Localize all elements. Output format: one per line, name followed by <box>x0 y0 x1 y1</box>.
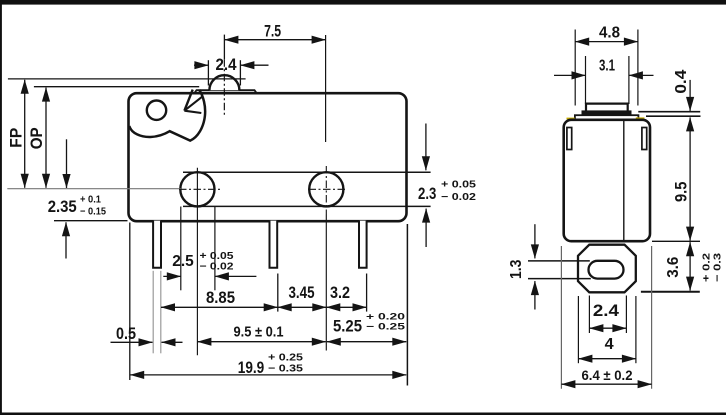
left hole vertical centerline <box>196 168 198 355</box>
dim 1.3 top arrow <box>534 224 536 258</box>
dim 2.4 right extension <box>625 296 627 334</box>
dim 2.4 left arrow <box>194 64 208 66</box>
svg-text:0.5: 0.5 <box>116 324 136 343</box>
pin2 right edge extension <box>277 274 279 312</box>
dim 4 right extension <box>635 296 637 363</box>
dim 2.5 right arrow <box>215 275 257 277</box>
dim 6.4 line <box>561 383 651 385</box>
svg-text:5.25: 5.25 <box>333 317 362 336</box>
frame top bar <box>0 0 726 5</box>
plunger plate <box>194 90 257 93</box>
svg-text:4.8: 4.8 <box>599 24 620 41</box>
dim 2.4 left extension <box>207 60 209 85</box>
latch slot left <box>567 128 572 150</box>
yellow mark left <box>567 118 575 120</box>
svg-text:6.4 ± 0.2: 6.4 ± 0.2 <box>582 368 633 383</box>
OP reference line <box>34 86 199 88</box>
dim 3.6 arrow <box>689 242 691 290</box>
dim 3.2 line <box>326 306 366 308</box>
dim 19.9 right extension <box>406 224 408 386</box>
pivot hole <box>147 101 166 120</box>
svg-text:2.5: 2.5 <box>172 253 194 270</box>
dim 9.5 line <box>197 341 325 343</box>
slot bottom line <box>183 205 431 207</box>
cap top extension <box>646 115 701 117</box>
svg-text:2.4: 2.4 <box>593 301 620 320</box>
dim 2.35 top arrow <box>66 139 68 188</box>
dim 7.5 right extension <box>325 35 327 142</box>
lever lower line <box>184 111 201 113</box>
svg-text:− 0.02: − 0.02 <box>200 261 235 272</box>
terminal bottom reference line <box>641 291 700 293</box>
svg-text:+ 0.2: + 0.2 <box>702 252 713 282</box>
dim 4.8 right extension <box>637 30 639 106</box>
dim 3.1 right arrow <box>629 74 654 76</box>
body bottom extension right <box>652 240 700 242</box>
dim 1.3 bottom arrow <box>534 281 536 309</box>
dim 4.8 line <box>575 41 638 43</box>
pin3 right edge extension <box>366 274 368 312</box>
svg-text:1.3: 1.3 <box>508 259 525 279</box>
dim 3.1 left extension <box>585 56 587 104</box>
svg-text:3.2: 3.2 <box>330 283 350 302</box>
svg-text:+ 0.05: + 0.05 <box>441 180 477 191</box>
svg-text:− 0.25: − 0.25 <box>366 322 406 333</box>
dim 3.1 left arrow <box>554 74 586 76</box>
dim 6.4 left extension <box>560 246 562 389</box>
right hole vertical centerline dashdot <box>325 166 327 215</box>
dim 8.85 line <box>161 306 278 308</box>
terminal slot <box>589 261 624 279</box>
lever diagonal edge <box>184 90 192 111</box>
dim 2.3 bottom arrow <box>425 209 427 247</box>
right hole horizontal centerline <box>309 188 346 190</box>
pin1 right edge extension <box>160 271 162 354</box>
body bottom extension left <box>54 220 128 222</box>
terminal pin 2 <box>270 221 278 268</box>
dim 6.4 right extension <box>651 246 653 389</box>
dim 0.5 left arrow <box>111 341 153 343</box>
slot top line <box>183 171 431 173</box>
body end view <box>564 120 650 241</box>
dim 4.8 left extension <box>574 30 576 106</box>
svg-text:7.5: 7.5 <box>264 22 281 41</box>
frame left bar <box>0 0 2 415</box>
hole axis reference line <box>7 188 181 190</box>
terminal pin 1 <box>153 221 161 268</box>
dim 2.4 right extension <box>239 60 241 85</box>
svg-text:9.5 ± 0.1: 9.5 ± 0.1 <box>234 325 284 341</box>
dim 7.5 left extension <box>223 35 225 60</box>
svg-text:FP: FP <box>6 128 25 148</box>
mounting hole left <box>180 172 214 206</box>
FP reference line <box>8 78 246 80</box>
cap flange <box>575 115 639 120</box>
dim 0.5 right arrow <box>162 341 183 343</box>
svg-text:2.3: 2.3 <box>418 184 436 203</box>
dim 0.4 arrow <box>689 80 691 111</box>
plunger top extension <box>638 111 700 113</box>
svg-text:OP: OP <box>27 127 46 149</box>
svg-text:4: 4 <box>605 336 614 353</box>
svg-text:9.5: 9.5 <box>671 182 690 203</box>
dim 1.3 bottom line <box>528 278 591 280</box>
dim 4 left extension <box>577 296 579 363</box>
dim 2.5 right extension <box>214 207 216 291</box>
svg-text:3.45: 3.45 <box>289 283 315 302</box>
svg-text:2.4: 2.4 <box>216 55 237 74</box>
dim 2.5 left arrow <box>163 275 181 277</box>
yellow mark right <box>636 117 645 119</box>
body inner edge line <box>623 121 625 240</box>
svg-text:0.4: 0.4 <box>673 69 690 93</box>
svg-text:3.6: 3.6 <box>665 256 682 278</box>
svg-text:19.9: 19.9 <box>238 358 265 377</box>
OP arrow <box>45 88 47 188</box>
dim 5.25 line <box>327 341 407 343</box>
lever cutout outline <box>129 90 205 141</box>
dim 7.5 line <box>224 39 325 41</box>
svg-text:+ 0.25: + 0.25 <box>268 353 304 364</box>
terminal end view octagon <box>578 245 636 293</box>
dim 3.45 line <box>278 306 327 308</box>
svg-text:− 0.35: − 0.35 <box>268 364 304 375</box>
svg-text:− 0.02: − 0.02 <box>441 192 477 203</box>
switch body <box>129 93 407 221</box>
FP arrow <box>24 80 26 188</box>
frame bottom bar <box>0 413 726 415</box>
pin1 left edge extension <box>152 271 154 354</box>
dim 1.3 top line <box>528 260 590 262</box>
lever fold line <box>184 96 202 111</box>
dim 19.9 left extension <box>129 223 131 381</box>
dim 2.4 left extension <box>588 296 590 334</box>
dim 3.1 right extension <box>628 56 630 104</box>
svg-text:− 0.3: − 0.3 <box>712 252 723 282</box>
right hole vertical extension <box>325 215 327 351</box>
svg-text:+ 0.05: + 0.05 <box>200 251 235 262</box>
dim 19.9 line <box>130 374 406 376</box>
svg-text:3.1: 3.1 <box>599 58 615 75</box>
svg-text:8.85: 8.85 <box>206 288 235 307</box>
dim 9.5 arrow <box>689 117 691 240</box>
left hole horizontal centerline <box>179 188 222 190</box>
cap black band <box>582 110 632 115</box>
plunger end view <box>586 104 628 111</box>
dim 2.4 right arrow <box>240 64 268 66</box>
latch slot right <box>642 128 647 150</box>
dim 4 line <box>578 358 636 360</box>
dim 2.35 bottom arrow <box>65 222 67 258</box>
svg-text:+ 0.1: + 0.1 <box>80 195 101 206</box>
svg-text:− 0.15: − 0.15 <box>80 207 106 218</box>
dim 2.3 top arrow <box>425 124 427 171</box>
dim 2.5 left extension <box>180 207 182 291</box>
terminal pin 3 <box>359 221 367 268</box>
svg-text:2.35: 2.35 <box>48 197 77 216</box>
plunger centerline <box>223 59 225 115</box>
dim 2.4 line <box>589 327 626 329</box>
mounting hole right <box>309 172 343 206</box>
plunger dome <box>209 75 239 90</box>
